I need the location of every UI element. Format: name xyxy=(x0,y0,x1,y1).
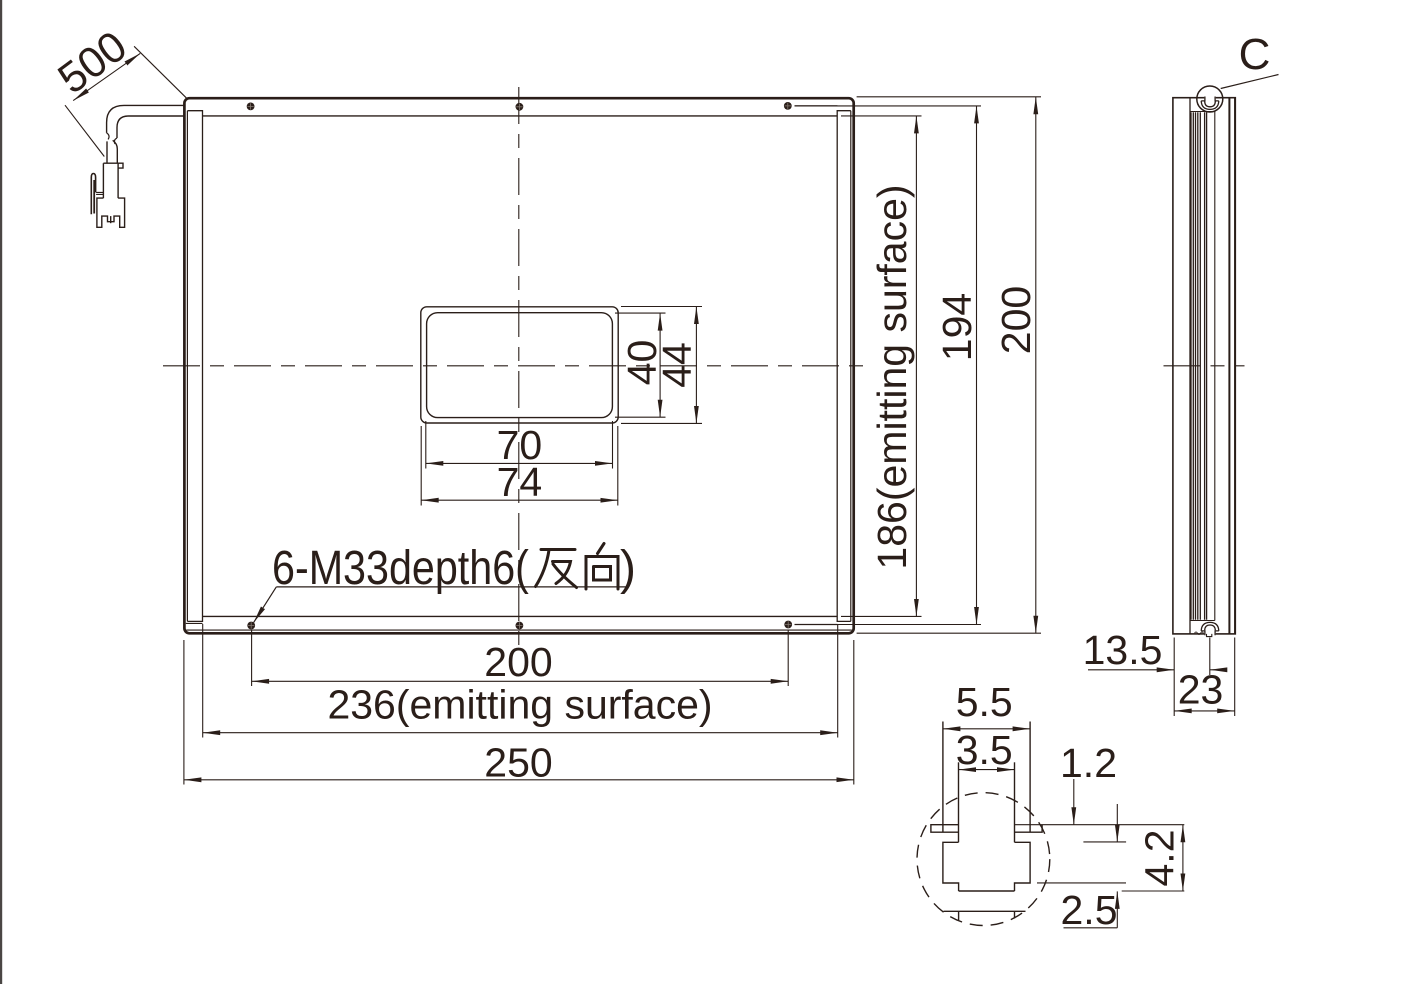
side inner bottom line xyxy=(1190,620,1215,622)
screw hole top left xyxy=(247,103,255,111)
dim 200 bottom extension right xyxy=(787,630,789,686)
svg-text:6-M33depth6(: 6-M33depth6( xyxy=(272,541,529,595)
profile left tab xyxy=(931,825,959,833)
side inner top line xyxy=(1190,111,1215,113)
scan border strip left edge xyxy=(0,0,2,984)
dim 13.5 arrow right xyxy=(1210,669,1225,671)
dim 1.2 arrow left xyxy=(1073,779,1075,825)
dim 194 extension top xyxy=(795,105,982,107)
dim 186 extension bottom xyxy=(841,615,922,617)
dim 250 line xyxy=(184,779,854,781)
dim 250 extension left xyxy=(183,640,185,785)
dim 250 extension right xyxy=(853,640,855,785)
dim 200 bottom extension left xyxy=(251,630,253,686)
dim 186 line xyxy=(915,116,917,617)
dim 500 extension line lower xyxy=(65,105,104,156)
svg-text:186(emitting surface): 186(emitting surface) xyxy=(869,184,915,569)
dim 74 extension left xyxy=(420,426,422,506)
screw row line top right xyxy=(795,105,838,107)
connector window inner rounded rect xyxy=(427,313,613,418)
emitting surface top line xyxy=(203,115,838,117)
profile cavity floor xyxy=(959,890,1015,892)
CABLE xyxy=(91,105,185,227)
profile right hook step xyxy=(1015,842,1031,891)
profile left inner wall xyxy=(958,762,960,842)
screw hole top middle xyxy=(516,103,524,111)
profile bottom notch left xyxy=(958,911,960,921)
dim 13.5 leader xyxy=(1088,669,1174,671)
connector window outer rect xyxy=(421,307,618,423)
note 6-M3 underline xyxy=(276,586,626,588)
svg-text:3.5: 3.5 xyxy=(956,727,1013,773)
dim 2.5 underline xyxy=(1064,927,1118,929)
screw hole bottom middle xyxy=(516,622,524,630)
side view outer outline xyxy=(1173,98,1235,634)
dim 13.5 extension left xyxy=(1173,638,1175,717)
connector center pin xyxy=(110,216,112,223)
svg-text:1.2: 1.2 xyxy=(1060,740,1117,786)
dim 44 extension top xyxy=(621,306,702,308)
profile tab top reference line xyxy=(1015,824,1185,826)
svg-text:23: 23 xyxy=(1178,667,1224,713)
cable lower segment xyxy=(107,140,117,163)
dim 70 extension left xyxy=(425,421,427,469)
profile bottom notch right xyxy=(1014,911,1016,918)
dim 200 right line xyxy=(1035,97,1037,633)
dim 1.2 extension line xyxy=(1083,841,1126,843)
cable inner outline xyxy=(117,116,186,138)
dim 40 line xyxy=(659,313,661,417)
side front plate line xyxy=(1228,98,1230,634)
side front face line xyxy=(1234,98,1236,634)
dim 236 extension left xyxy=(202,624,204,738)
left rail inner edge xyxy=(187,111,202,622)
left rail outer edge xyxy=(186,111,188,622)
top screw channel profile xyxy=(1201,97,1219,110)
dim 186 extension top xyxy=(841,115,922,117)
horizontal centerline xyxy=(163,365,871,367)
profile left outer wall xyxy=(942,722,944,833)
dim 44 line xyxy=(695,307,697,424)
dim 23 line xyxy=(1174,710,1235,712)
detail balloon circle xyxy=(1197,86,1223,112)
svg-text:236(emitting surface): 236(emitting surface) xyxy=(327,682,712,728)
bottom screw channel profile xyxy=(1195,622,1219,636)
dim 74 line xyxy=(421,499,618,501)
svg-text:194: 194 xyxy=(934,293,980,361)
dim 74 extension right xyxy=(617,426,619,506)
frame inner bottom line xyxy=(186,629,852,631)
DETAIL C xyxy=(917,679,1184,933)
SIDE VIEW xyxy=(1083,30,1279,716)
connector lower body and feet xyxy=(97,198,125,227)
svg-text:74: 74 xyxy=(497,459,543,505)
dim 194 extension bottom xyxy=(795,624,982,626)
dim 200 right extension top xyxy=(857,96,1041,98)
svg-text:4.2: 4.2 xyxy=(1137,830,1183,887)
emitting surface bottom line xyxy=(203,615,838,617)
top screw channel slot opening xyxy=(1204,96,1215,100)
connector clip inner line xyxy=(93,180,95,214)
dim 4.2 line xyxy=(1182,825,1184,891)
side lightguide edge line xyxy=(1214,112,1216,621)
dim 194 line xyxy=(976,106,978,625)
svg-text:13.5: 13.5 xyxy=(1083,627,1163,673)
right rail outer edge xyxy=(850,111,852,622)
dim 13.5 extension right xyxy=(1209,638,1211,676)
profile right inner wall xyxy=(1014,762,1016,842)
dim 70 line xyxy=(426,462,613,464)
profile right tab xyxy=(1015,825,1043,833)
profile bottom surface xyxy=(944,910,1026,912)
profile left hook step xyxy=(943,842,959,891)
cable break squiggle left xyxy=(107,133,109,140)
side view centerline xyxy=(1164,365,1245,367)
detail boundary dashed circle xyxy=(917,793,1050,926)
svg-text:200: 200 xyxy=(993,286,1039,354)
dim 40 extension top xyxy=(615,312,666,314)
note glyph 向 xyxy=(586,544,618,590)
dim 1.2 arrow right xyxy=(1116,804,1118,842)
svg-text:5.5: 5.5 xyxy=(956,679,1013,725)
side left plate inner edge xyxy=(1189,98,1191,634)
rail step line bottom left xyxy=(186,622,203,624)
svg-text:C: C xyxy=(1239,30,1271,79)
dim 2.5 floor extension xyxy=(1037,882,1126,884)
dim 500 line xyxy=(73,53,140,100)
FRONT VIEW xyxy=(163,87,871,649)
svg-text:44: 44 xyxy=(654,342,700,388)
dim 23 extension right xyxy=(1234,638,1236,717)
connector clip tick xyxy=(96,192,103,194)
svg-text:250: 250 xyxy=(484,740,552,786)
dim 4.2 bottom extension xyxy=(1122,890,1185,892)
dim 200 bottom line xyxy=(252,680,789,682)
svg-text:2.5: 2.5 xyxy=(1061,887,1118,933)
screw hole bottom left xyxy=(247,622,255,630)
connector upper body xyxy=(103,163,123,198)
svg-text:500: 500 xyxy=(50,22,136,103)
profile right outer wall xyxy=(1029,722,1031,833)
note 6-M3 leader xyxy=(254,587,277,623)
detail C leader xyxy=(1221,75,1279,89)
vertical centerline xyxy=(518,87,520,649)
screw hole bottom right xyxy=(784,621,792,629)
dim 236 extension right xyxy=(837,624,839,738)
screw row line bottom right xyxy=(795,624,838,626)
svg-text:200: 200 xyxy=(484,639,552,685)
DIMENSIONS xyxy=(50,22,1041,785)
dim 3.5 line xyxy=(959,769,1015,771)
dim 2.5 arrow xyxy=(1116,891,1118,927)
cable break squiggle right xyxy=(114,138,117,144)
panel outer frame xyxy=(184,98,853,633)
connector clip xyxy=(91,174,95,215)
dim 40 extension bottom xyxy=(615,416,666,418)
bottom screw channel slot opening xyxy=(1204,632,1215,635)
screw hole top right xyxy=(784,102,792,110)
dim 200 right extension bottom xyxy=(857,632,1041,634)
dim 500 extension line upper xyxy=(134,46,187,98)
right rail inner edge xyxy=(837,111,851,622)
side diffuser stack lines xyxy=(1191,112,1207,620)
dim 70 extension right xyxy=(612,421,614,469)
note glyph 反 xyxy=(536,550,577,588)
dim 5.5 line xyxy=(943,728,1030,730)
dim 236 line xyxy=(203,732,838,734)
dim 44 extension bottom xyxy=(621,422,702,424)
cable outer outline xyxy=(107,105,186,132)
svg-text:): ) xyxy=(620,542,636,595)
